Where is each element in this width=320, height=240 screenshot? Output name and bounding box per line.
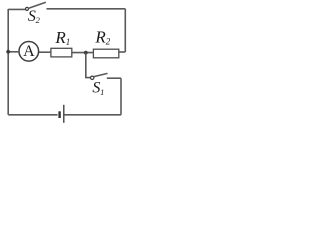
wire right edge: [124, 9, 126, 52]
battery positive long plate: [63, 105, 65, 123]
wire right edge to R2: [119, 51, 125, 53]
svg-text:R2: R2: [94, 27, 110, 46]
wire junction down to S1: [86, 53, 91, 78]
wire bottom left segment: [8, 114, 57, 116]
node junction left edge: [6, 50, 10, 54]
ammeter A1 circle: [19, 42, 39, 62]
resistor R1: [51, 48, 72, 57]
svg-text:R1: R1: [54, 28, 70, 47]
resistor R2: [93, 49, 118, 58]
wire top right segment: [47, 8, 126, 10]
switch S2 blade: [28, 2, 46, 8]
svg-text:S2: S2: [28, 8, 41, 25]
svg-text:A: A: [23, 43, 35, 60]
wire top left segment: [8, 8, 26, 10]
wire R1 to R2: [72, 52, 94, 54]
wire right vertical S1 branch: [120, 78, 122, 115]
battery negative short plate: [58, 111, 60, 118]
wire left edge: [7, 9, 9, 115]
node junction between R1 and R2: [84, 51, 88, 55]
wire left edge to ammeter: [8, 51, 19, 53]
wire bottom right segment: [64, 114, 121, 116]
svg-text:S1: S1: [92, 80, 104, 97]
wire S1 right contact: [107, 77, 121, 79]
switch S2 pivot: [26, 7, 29, 10]
wire ammeter to R1: [39, 51, 51, 53]
switch S1 blade: [94, 73, 108, 76]
switch S1 pivot: [91, 76, 94, 79]
